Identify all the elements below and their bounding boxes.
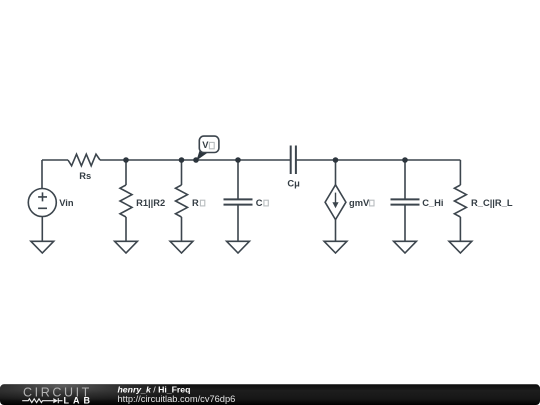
wire Cmu to output <box>297 159 461 161</box>
wire Vin top lead <box>41 160 43 189</box>
wire top main left segment <box>42 159 68 161</box>
ground for RC||RL <box>449 241 472 253</box>
wire Rpi top lead <box>181 160 183 185</box>
svg-text:V: V <box>202 140 209 150</box>
footer bar <box>0 384 540 405</box>
capacitor Cpi <box>224 199 253 204</box>
wire RC||RL bottom lead <box>459 217 461 241</box>
label gmVpi <box>349 198 374 208</box>
svg-text:R_C||R_L: R_C||R_L <box>471 198 513 208</box>
current source gmVpi <box>325 185 346 220</box>
wire RC||RL top lead <box>459 160 461 185</box>
resistor RC||RL <box>454 185 466 217</box>
junction dot at node Vpi flag <box>193 157 199 163</box>
svg-text:R: R <box>192 198 199 208</box>
ground for Cpi <box>227 241 250 253</box>
svg-text:C_Hi: C_Hi <box>422 198 443 208</box>
svg-text:Vin: Vin <box>59 198 74 208</box>
ground for C_Hi <box>394 241 417 253</box>
svg-text:Rs: Rs <box>79 171 91 181</box>
wire Cpi bottom lead <box>237 205 239 242</box>
node flag Vpi <box>197 136 219 160</box>
capacitor Cmu <box>291 146 296 175</box>
junction dot at C_Hi branch <box>402 157 408 163</box>
ground for Rpi <box>170 241 193 253</box>
ground for R1||R2 <box>115 241 138 253</box>
junction dot at Cpi branch <box>235 157 241 163</box>
logo resistor zigzag and diode <box>22 398 62 403</box>
junction dot at gm source branch <box>333 157 339 163</box>
svg-text:gmV: gmV <box>349 198 370 208</box>
wire R1||R2 bottom lead <box>125 217 127 241</box>
wire Cpi top lead <box>237 160 239 199</box>
source Vin <box>28 189 56 217</box>
svg-text:Cμ: Cμ <box>287 178 300 188</box>
junction dot at Rpi branch <box>179 157 185 163</box>
wire C_Hi top lead <box>404 160 406 199</box>
wire gm source top lead <box>335 160 337 185</box>
wire C_Hi bottom lead <box>404 205 406 242</box>
wire gm source bottom lead <box>335 220 337 242</box>
svg-text:C: C <box>256 198 263 208</box>
ground for gm source <box>324 241 347 253</box>
svg-text:LAB: LAB <box>64 395 95 405</box>
resistor Rs <box>68 154 100 166</box>
junction dot at R1||R2 branch <box>123 157 129 163</box>
ground for Vin <box>31 241 54 253</box>
svg-text:http://circuitlab.com/cv76dp6: http://circuitlab.com/cv76dp6 <box>118 394 236 404</box>
capacitor C_Hi <box>391 199 420 204</box>
label Rpi <box>192 198 205 208</box>
resistor R1||R2 <box>120 185 132 217</box>
wire Rs to node B <box>100 159 290 161</box>
wire R1||R2 top lead <box>125 160 127 185</box>
wire Vin bottom lead <box>41 217 43 242</box>
svg-text:R1||R2: R1||R2 <box>136 198 165 208</box>
resistor Rpi <box>176 185 188 217</box>
wire Rpi bottom lead <box>181 217 183 241</box>
label Cpi <box>256 198 269 208</box>
